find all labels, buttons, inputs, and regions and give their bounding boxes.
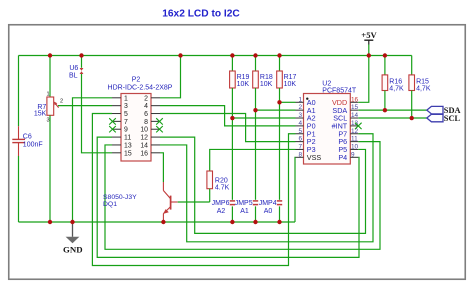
svg-text:4: 4: [298, 120, 302, 127]
resistor R20 4.7K: [207, 171, 230, 191]
+5V power symbol: [361, 30, 377, 56]
resistor R15 4,7K: [409, 56, 431, 119]
svg-text:15: 15: [124, 150, 132, 157]
svg-text:9: 9: [124, 127, 128, 134]
svg-text:P4: P4: [338, 153, 347, 162]
wire P2 pin13 to U2 P6 (bottom route): [105, 142, 380, 250]
svg-text:3: 3: [298, 112, 302, 119]
wire R18 to U2 A1 and JMP5: [255, 88, 257, 200]
svg-text:4: 4: [144, 103, 148, 110]
svg-text:A1: A1: [240, 208, 249, 215]
jumper JMP5 A1: [235, 200, 259, 222]
svg-text:10K: 10K: [260, 81, 273, 88]
no-connect X U2 pin13: [355, 123, 362, 129]
connector SCL: [427, 114, 461, 123]
svg-text:4.7K: 4.7K: [215, 184, 230, 191]
jumper JMP4 A0: [259, 200, 283, 222]
svg-text:7: 7: [298, 144, 302, 151]
wire C6 branch (left vertical): [18, 56, 20, 127]
svg-text:16x2 LCD to I2C: 16x2 LCD to I2C: [162, 9, 240, 20]
wire U6 to P2 pin15: [82, 74, 113, 153]
svg-text:U6: U6: [69, 65, 78, 72]
wire P2 pin14 to U2 P7 (bottom route): [160, 134, 373, 242]
wire U2 VDD to +5V: [358, 56, 369, 103]
wire U6 top: [81, 56, 83, 68]
svg-text:13: 13: [124, 142, 132, 149]
wire P2 pin16 to DQ1 collector: [160, 153, 163, 182]
connector P2 HDR-IDC-2.54-2X8P: [108, 76, 173, 161]
svg-text:12: 12: [140, 135, 148, 142]
resistor R19 10K: [230, 56, 250, 89]
svg-text:13: 13: [351, 120, 359, 127]
junction dots middle: [230, 100, 414, 120]
svg-text:SCL: SCL: [444, 114, 461, 123]
resistor R16 4,7K: [382, 56, 404, 111]
wire DQ1 base to R20: [178, 201, 210, 203]
svg-text:2: 2: [144, 95, 148, 102]
svg-text:1: 1: [298, 96, 302, 103]
svg-text:6: 6: [144, 111, 148, 118]
U2 pin numbers: [298, 96, 358, 158]
wire P2 pin1 to GND: [73, 98, 113, 222]
wire P2 pin5 to U2 P1 (bottom route): [92, 114, 295, 266]
jumper JMP6 A2: [212, 200, 236, 222]
wire C6 to ground rail: [18, 156, 20, 222]
svg-text:9: 9: [351, 151, 355, 158]
svg-text:16: 16: [351, 96, 359, 103]
svg-text:2: 2: [60, 99, 63, 105]
wire R20 bottom to base node: [209, 189, 211, 202]
svg-text:+5V: +5V: [361, 30, 377, 40]
no-connect X P2 pin10: [156, 126, 163, 132]
trimmer R7 15K: [34, 91, 63, 123]
svg-text:U2: U2: [322, 81, 331, 88]
svg-text:HDR-IDC-2.54-2X8P: HDR-IDC-2.54-2X8P: [108, 85, 173, 92]
svg-text:4,7K: 4,7K: [416, 86, 431, 93]
svg-text:3: 3: [46, 118, 49, 124]
svg-text:P2: P2: [132, 76, 141, 83]
wire +5V top rail: [19, 55, 412, 57]
svg-text:JMP6: JMP6: [212, 200, 230, 207]
op-amp U2 PCF8574T box: [304, 81, 357, 164]
svg-text:10: 10: [351, 144, 359, 151]
svg-text:JMP4: JMP4: [259, 200, 277, 207]
P2 pin stubs right: [151, 98, 160, 153]
U2 pin stubs right: [350, 102, 358, 157]
wire P2 pin2 to +5V rail: [160, 56, 181, 98]
wire SDA net: [358, 109, 427, 111]
U2 pin stubs left: [296, 102, 304, 157]
no-connect X P2 pin7: [109, 118, 116, 124]
svg-text:14: 14: [351, 112, 359, 119]
svg-text:7: 7: [124, 119, 128, 126]
resistor R18 10K: [253, 56, 273, 89]
svg-text:8: 8: [298, 151, 302, 158]
U2 pin names: [307, 98, 348, 162]
wire P2 pin11 to U2 P4 (bottom route): [97, 137, 359, 257]
svg-text:16: 16: [140, 150, 148, 157]
svg-text:A0: A0: [264, 208, 273, 215]
ground: [63, 222, 83, 254]
svg-text:15K: 15K: [34, 110, 47, 117]
svg-text:5: 5: [124, 111, 128, 118]
svg-text:DQ1: DQ1: [103, 201, 117, 208]
svg-text:R20: R20: [215, 177, 228, 184]
svg-text:2: 2: [298, 104, 302, 111]
capacitor C6: [12, 126, 42, 156]
svg-text:14: 14: [140, 142, 148, 149]
svg-text:GND: GND: [63, 244, 83, 254]
svg-text:8: 8: [144, 119, 148, 126]
svg-text:5: 5: [298, 128, 302, 135]
svg-text:C6: C6: [23, 134, 32, 141]
svg-text:R15: R15: [416, 79, 429, 86]
wire P2 pin12 to U2 P5 (bottom route): [160, 137, 366, 233]
transistor DQ1 S8050-J3Y: [103, 182, 178, 222]
P2 pin stubs left: [112, 98, 121, 153]
wire R17 to U2 A0 and JMP4: [279, 88, 281, 200]
wire U2 VSS to ground rail: [294, 157, 297, 222]
P2 pin numbers: [124, 95, 148, 157]
svg-text:JMP5: JMP5: [235, 200, 253, 207]
svg-text:6: 6: [298, 136, 302, 143]
svg-text:S8050-J3Y: S8050-J3Y: [103, 194, 137, 201]
connector SDA: [427, 106, 461, 115]
resistor R17 10K: [277, 56, 297, 89]
svg-text:10: 10: [140, 127, 148, 134]
wire SCL net: [358, 117, 427, 119]
junction dots ground rail: [48, 220, 282, 224]
no-connect X P2 pin8: [156, 118, 163, 124]
svg-text:11: 11: [124, 135, 131, 142]
svg-text:11: 11: [351, 136, 358, 143]
svg-text:VSS: VSS: [307, 153, 322, 162]
wire R19 to U2 A2 and JMP6: [231, 88, 233, 200]
no-connect X P2 pin9: [109, 126, 116, 132]
junction dots top rail: [48, 53, 387, 57]
svg-text:R16: R16: [389, 79, 402, 86]
svg-text:BL: BL: [69, 73, 78, 80]
svg-text:3: 3: [124, 103, 128, 110]
svg-text:15: 15: [351, 104, 359, 111]
wire R7 top: [49, 56, 51, 98]
wire U2 P3 to R20: [210, 149, 296, 171]
svg-text:10K: 10K: [237, 81, 250, 88]
svg-text:100nF: 100nF: [23, 142, 43, 149]
wire P2 pin4 to U2 P0: [160, 106, 296, 126]
svg-text:A2: A2: [217, 208, 226, 215]
svg-text:4,7K: 4,7K: [389, 86, 404, 93]
svg-text:1: 1: [124, 95, 128, 102]
wire R7 wiper to P2 pin3: [58, 105, 112, 107]
svg-text:10K: 10K: [284, 81, 297, 88]
ground rail wire: [19, 221, 296, 223]
wire R7 bottom to ground rail: [49, 115, 51, 222]
fuse U6 BL: [69, 65, 83, 80]
wire P2 pin6 to U2 P2: [160, 114, 296, 142]
